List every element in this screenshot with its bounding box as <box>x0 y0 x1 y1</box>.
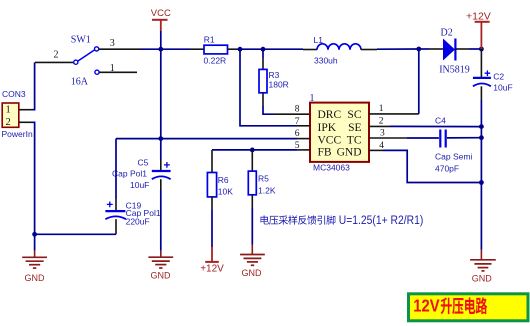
node junction C5 rail <box>158 136 163 141</box>
resistor R6 <box>207 150 233 247</box>
svg-text:6: 6 <box>295 129 300 139</box>
svg-text:DRC: DRC <box>318 109 342 121</box>
svg-text:GND: GND <box>472 273 493 283</box>
node junction B <box>261 47 266 52</box>
capacitor C4 <box>369 116 481 174</box>
svg-text:GND: GND <box>242 268 263 278</box>
switch SW1 <box>35 34 137 87</box>
note char 电 <box>261 215 269 224</box>
note formula text <box>261 215 424 227</box>
wire pin1 riser <box>369 49 419 114</box>
wire CON3 pin2 down left rail <box>19 122 35 234</box>
wire R3 to pin8 <box>263 106 310 114</box>
svg-text:VCC: VCC <box>151 8 171 19</box>
svg-text:C5: C5 <box>138 157 149 167</box>
capacitor C2 <box>473 49 513 100</box>
svg-text:+12V: +12V <box>466 10 491 22</box>
svg-text:MC34063: MC34063 <box>313 163 350 173</box>
svg-text:1: 1 <box>6 105 11 116</box>
svg-text:2: 2 <box>54 50 59 61</box>
svg-text:FB: FB <box>318 147 332 159</box>
ground under R5 <box>240 245 265 278</box>
note char 样 <box>288 215 297 224</box>
svg-text:180R: 180R <box>269 80 289 90</box>
svg-text:220uF: 220uF <box>126 216 150 226</box>
svg-text:+12V: +12V <box>200 263 224 274</box>
ground under C5 rail <box>148 251 173 281</box>
resistor R1 <box>190 35 240 66</box>
svg-text:Cap Semi: Cap Semi <box>435 152 472 162</box>
node bottom left junction <box>32 232 37 237</box>
node junction R5 top <box>250 148 255 153</box>
capacitor C19 <box>105 139 160 235</box>
note char 反 <box>298 216 307 225</box>
note char 压 <box>269 216 278 225</box>
svg-text:GND: GND <box>337 147 362 159</box>
node junction A <box>238 47 243 52</box>
wire pin2 to right rail <box>369 125 481 127</box>
svg-text:VCC: VCC <box>318 135 342 147</box>
wire pin5 to R6/R5 <box>212 149 310 151</box>
svg-text:4: 4 <box>379 141 384 151</box>
svg-text:3: 3 <box>380 128 385 138</box>
svg-text:10K: 10K <box>218 187 233 197</box>
node pin4 rail junction <box>479 180 484 185</box>
title char 升 <box>441 297 452 314</box>
note char 引 <box>317 216 325 225</box>
title char 压 <box>452 298 463 314</box>
svg-text:D2: D2 <box>441 27 453 38</box>
svg-text:R5: R5 <box>258 173 269 183</box>
svg-text:0.22R: 0.22R <box>204 55 227 65</box>
svg-text:R6: R6 <box>218 175 229 185</box>
svg-text:10uF: 10uF <box>130 180 149 190</box>
power +12V top <box>466 10 491 49</box>
diode D2 <box>439 27 470 75</box>
wire right rail <box>480 100 482 250</box>
svg-text:PowerIn: PowerIn <box>2 129 33 139</box>
IC U1 MC34063 <box>310 93 370 173</box>
note char 馈 <box>307 215 316 224</box>
wire junction A to junction B <box>240 48 263 50</box>
wire L1 to pin1 node <box>377 48 419 50</box>
svg-text:8: 8 <box>295 105 300 115</box>
svg-text:GND: GND <box>25 273 46 283</box>
svg-text:U=1.25(1+ R2/R1): U=1.25(1+ R2/R1) <box>339 215 424 227</box>
svg-text:330uh: 330uh <box>314 55 338 65</box>
resistor R5 <box>248 150 276 245</box>
capacitor C5 <box>112 49 171 251</box>
svg-text:R3: R3 <box>269 70 280 80</box>
wire D2 cathode to +12V node <box>455 48 481 50</box>
svg-text:470pF: 470pF <box>435 163 459 173</box>
svg-text:Cap Pol1: Cap Pol1 <box>112 169 147 179</box>
svg-text:12V: 12V <box>413 296 440 316</box>
svg-text:IPK: IPK <box>318 122 337 134</box>
node +12V junction <box>479 47 484 52</box>
ground bottom left <box>22 234 47 283</box>
svg-text:3: 3 <box>110 38 115 49</box>
svg-text:C2: C2 <box>493 71 504 81</box>
resistor R3 <box>259 49 289 106</box>
wire pin6 rail from C19 riser <box>116 138 310 140</box>
inductor L1 <box>303 35 377 66</box>
wire to D2 anode <box>419 48 443 50</box>
node C4 rail junction <box>479 135 484 140</box>
svg-text:2: 2 <box>6 117 11 128</box>
wire junction B to L1 <box>263 48 303 50</box>
power +12V bottom <box>200 247 224 274</box>
wire pin7 from junction A <box>240 49 310 126</box>
connector CON3 <box>2 89 33 139</box>
svg-text:C4: C4 <box>435 116 446 126</box>
svg-text:2: 2 <box>379 117 384 127</box>
title char 电 <box>465 297 475 314</box>
wire top rail from switch pin3 to VCC node <box>99 48 190 50</box>
svg-text:GND: GND <box>151 271 172 281</box>
svg-text:R1: R1 <box>204 35 215 45</box>
note char 采 <box>279 216 288 225</box>
wire bottom left to C19 <box>35 233 116 235</box>
title box 12V boost <box>409 294 529 321</box>
svg-text:IN5819: IN5819 <box>439 65 470 76</box>
svg-text:16A: 16A <box>71 76 89 87</box>
svg-text:SE: SE <box>348 122 361 134</box>
node VCC junction <box>158 47 163 52</box>
wire CON3 pin1 to switch pin2 <box>19 62 35 109</box>
node pin2 rail junction <box>479 124 484 129</box>
svg-text:10uF: 10uF <box>493 83 512 93</box>
power VCC <box>151 8 171 49</box>
svg-text:SW1: SW1 <box>71 34 91 45</box>
svg-text:1.2K: 1.2K <box>258 185 276 195</box>
svg-text:1: 1 <box>379 104 384 114</box>
note char 脚 <box>326 216 335 225</box>
node pin1 riser junction <box>416 47 421 52</box>
ground right rail <box>470 250 496 284</box>
wire pin4 to right rail <box>369 150 481 182</box>
svg-text:CON3: CON3 <box>2 89 26 99</box>
svg-text:TC: TC <box>347 135 362 147</box>
title char 路 <box>476 297 488 314</box>
svg-text:SC: SC <box>347 109 361 121</box>
